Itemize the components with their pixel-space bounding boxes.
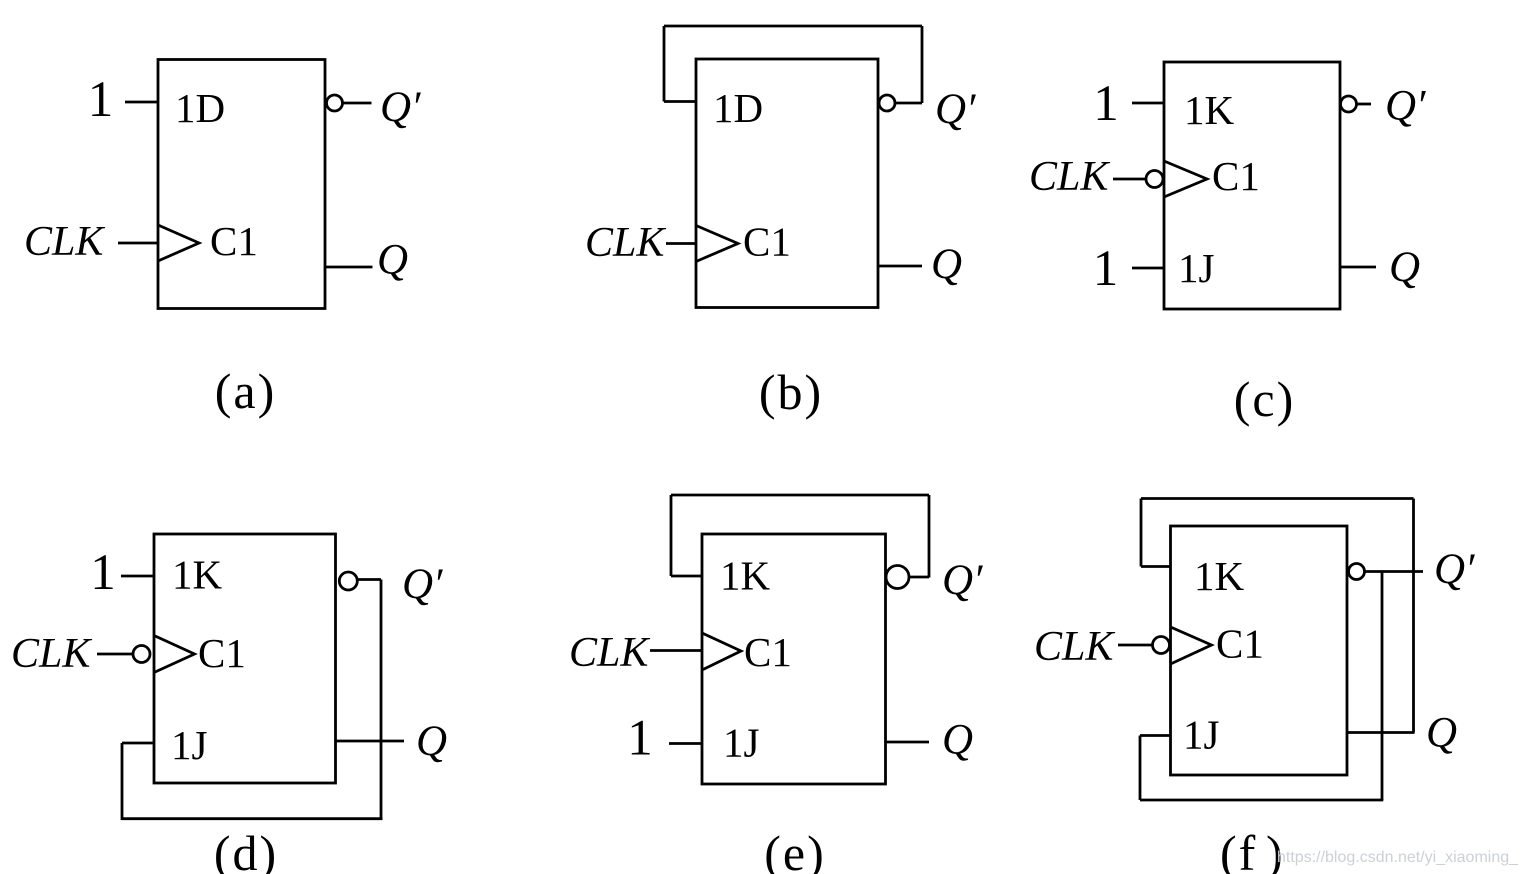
svg-text:Q: Q [931, 241, 962, 288]
wire 1 to 1D input [125, 101, 158, 104]
wire feedback top rail [671, 494, 929, 497]
svg-text:Q′: Q′ [935, 86, 976, 133]
wire CLK to clock bubble [1113, 178, 1146, 181]
svg-text:https://blog.csdn.net/yi_xiaom: https://blog.csdn.net/yi_xiaoming_ [1277, 849, 1519, 866]
svg-text:1J: 1J [723, 720, 760, 766]
svg-text:Q′: Q′ [1385, 83, 1426, 130]
wire feedback left vertical [121, 743, 124, 820]
inversion bubble clock input [1153, 637, 1170, 654]
wire Q output [336, 740, 405, 743]
svg-text:1: 1 [1093, 241, 1119, 297]
svg-text:(c): (c) [1234, 371, 1296, 427]
svg-text:Q: Q [942, 717, 973, 764]
svg-text:CLK: CLK [1029, 154, 1110, 200]
wire feedback right vertical down to Q [1412, 499, 1415, 733]
svg-text:C1: C1 [743, 219, 791, 265]
svg-text:Q: Q [1426, 710, 1457, 757]
flip-flop U2 body [696, 59, 878, 308]
flip-flop U4 body [154, 534, 336, 783]
wire feedback top rail (Q to 1K) [1141, 497, 1414, 500]
wire Q' output to feedback corner [358, 578, 382, 581]
clock edge triangle [696, 226, 738, 262]
wire feedback right vertical [928, 495, 931, 578]
wire feedback left vertical (bottom) [1139, 736, 1142, 801]
svg-text:(a): (a) [215, 363, 277, 419]
wire feedback left vertical [1140, 499, 1143, 567]
inversion bubble Q' output [327, 95, 343, 111]
svg-text:1: 1 [88, 72, 114, 128]
wire 1 to 1J input [1132, 267, 1164, 270]
svg-text:C1: C1 [210, 218, 258, 264]
svg-text:(f: (f [1220, 825, 1257, 874]
svg-text:Q: Q [416, 718, 447, 765]
wire Q' output [1357, 103, 1371, 106]
wire 1J feedback stub [122, 742, 154, 745]
svg-text:Q′: Q′ [1434, 546, 1475, 593]
wire feedback left vertical [670, 495, 673, 576]
inversion bubble Q' output [339, 572, 357, 590]
wire feedback stub to 1D [664, 100, 696, 103]
svg-text:CLK: CLK [11, 631, 92, 677]
wire Q' output [343, 102, 372, 105]
svg-text:CLK: CLK [1034, 624, 1115, 670]
svg-text:1K: 1K [1184, 87, 1235, 133]
svg-text:Q′: Q′ [942, 557, 983, 604]
wire Q' output to feedback [896, 102, 923, 105]
wire feedback bottom rail [1140, 799, 1383, 802]
svg-text:1: 1 [1093, 76, 1119, 132]
svg-text:CLK: CLK [24, 219, 105, 265]
svg-text:C1: C1 [198, 630, 246, 676]
svg-text:CLK: CLK [569, 630, 650, 676]
svg-text:1J: 1J [1178, 245, 1215, 291]
wire Q output [1347, 731, 1415, 734]
wire Q output [886, 741, 930, 744]
svg-text:C1: C1 [1216, 621, 1264, 667]
wire Q' output [1365, 570, 1423, 573]
svg-text:1D: 1D [175, 85, 225, 131]
svg-text:1: 1 [627, 711, 653, 767]
clock edge triangle [154, 636, 195, 673]
wire feedback stub to 1K [671, 575, 702, 578]
svg-text:1J: 1J [1183, 712, 1220, 758]
inversion bubble Q' output [1341, 96, 1357, 112]
svg-text:1: 1 [90, 545, 116, 601]
svg-text:CLK: CLK [585, 220, 666, 266]
svg-text:1K: 1K [172, 552, 223, 598]
wire feedback stub to 1K [1141, 565, 1171, 568]
svg-text:1D: 1D [713, 85, 763, 131]
svg-text:C1: C1 [744, 629, 792, 675]
svg-text:1J: 1J [171, 722, 208, 768]
wire CLK to C1 [650, 649, 702, 652]
svg-text:Q: Q [377, 237, 408, 284]
wire 1 to 1K input [1132, 102, 1164, 105]
inversion bubble clock input [133, 646, 150, 663]
svg-text:Q′: Q′ [402, 561, 443, 608]
clock edge triangle [1171, 627, 1212, 664]
clock edge triangle [702, 633, 741, 670]
wire Q output [325, 266, 373, 269]
clock edge triangle [1164, 161, 1207, 197]
svg-text:1K: 1K [720, 553, 771, 599]
wire feedback right vertical [921, 26, 924, 103]
svg-text:(e): (e) [764, 825, 826, 874]
wire 1 to 1K input [121, 575, 154, 578]
wire feedback left vertical [663, 26, 666, 102]
flip-flop U6 body [1171, 526, 1348, 775]
wire 1J feedback stub [1140, 734, 1171, 737]
flip-flop U3 body [1164, 62, 1340, 309]
svg-text:Q: Q [1389, 244, 1420, 291]
wire Q' output to feedback [909, 576, 929, 579]
wire feedback vertical Q' down to bottom rail [1381, 572, 1384, 801]
wire Q output [1340, 266, 1376, 269]
wire CLK to clock bubble [97, 653, 133, 656]
clock edge triangle [158, 225, 199, 261]
svg-text:1K: 1K [1194, 553, 1245, 599]
wire CLK to C1 [118, 242, 158, 245]
svg-text:Q′: Q′ [380, 84, 421, 131]
inversion bubble clock input [1146, 171, 1163, 188]
wire feedback bottom rail [122, 817, 382, 820]
inversion bubble Q' output [879, 95, 895, 111]
inversion bubble Q' output [886, 566, 909, 589]
inversion bubble Q' output [1349, 564, 1365, 580]
wire CLK to clock bubble [1118, 644, 1153, 647]
wire Q output [878, 265, 922, 268]
svg-text:C1: C1 [1212, 153, 1260, 199]
flip-flop U1 body [158, 60, 325, 309]
wire 1 to 1J input [669, 742, 702, 745]
wire CLK to C1 [666, 242, 696, 245]
svg-text:(b): (b) [759, 364, 823, 420]
wire feedback top rail [664, 25, 922, 28]
svg-text:(d): (d) [214, 825, 278, 874]
flip-flop U5 body [702, 534, 886, 784]
wire feedback right vertical (Q' down) [380, 580, 383, 821]
